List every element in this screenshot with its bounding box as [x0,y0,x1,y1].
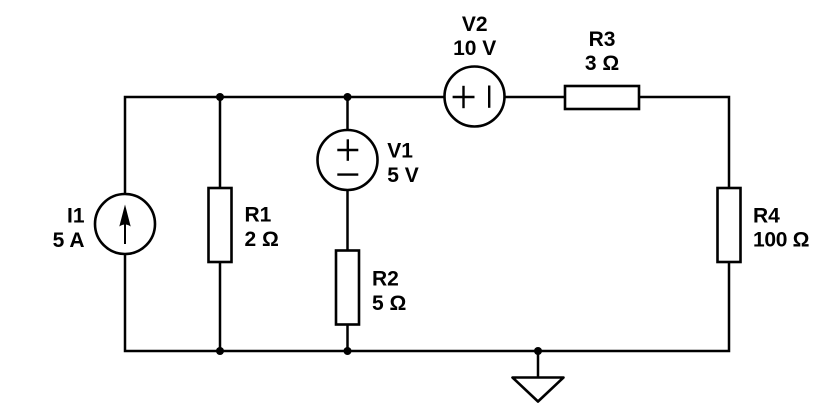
svg-text:V1: V1 [387,140,413,163]
svg-text:R2: R2 [372,268,399,291]
svg-text:5 V: 5 V [387,164,419,187]
svg-text:R1: R1 [245,204,272,227]
svg-text:R3: R3 [589,28,616,51]
svg-text:V2: V2 [462,13,488,36]
svg-text:5 A: 5 A [53,229,85,252]
svg-text:I1: I1 [67,204,85,227]
svg-text:R4: R4 [753,204,780,227]
svg-text:2 Ω: 2 Ω [245,228,279,251]
svg-text:10 V: 10 V [453,37,496,60]
svg-text:3 Ω: 3 Ω [585,52,619,75]
svg-text:5 Ω: 5 Ω [372,292,406,315]
svg-text:100 Ω: 100 Ω [753,229,809,252]
